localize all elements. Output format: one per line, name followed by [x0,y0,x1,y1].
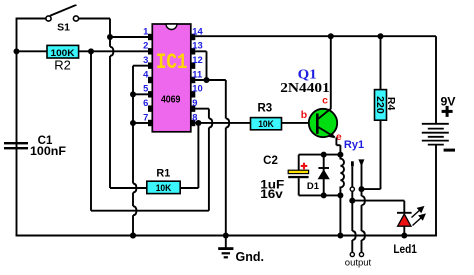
node coil bottom [337,192,343,198]
wire left rail to R2 [17,50,48,52]
wire pin13 down to pin11 [206,51,208,80]
wire R3 to base [282,122,311,124]
wire R4 bottom [362,120,381,189]
wire to pin 5 [133,93,148,95]
svg-text:Led1: Led1 [393,242,417,256]
svg-text:14: 14 [192,25,203,36]
wire to pin 3 [133,65,148,67]
wire pin9 riser [208,109,210,211]
wire pin 14 +V rail [195,35,436,37]
wire top-left rail segment [17,18,47,20]
svg-text:6: 6 [143,97,148,108]
wire pins 3-5-7 vertical [132,66,134,236]
node junction pin 11 [204,77,210,83]
svg-text:16v: 16v [260,187,283,201]
node junction pin 7 [130,120,136,126]
node junction left rail / R2 [14,48,20,54]
svg-text:9: 9 [192,97,197,108]
relay contact left [350,161,356,256]
svg-text:R3: R3 [257,103,272,115]
wire pins11-13 down to ground [225,80,227,236]
svg-text:output: output [345,258,372,269]
wire R1 left [110,187,147,189]
node D1 top [321,152,327,158]
svg-text:100K: 100K [51,47,75,58]
label battery minus [444,149,455,152]
svg-text:c: c [322,95,328,107]
node D1 bottom [321,192,327,198]
wire R4 top [380,36,382,89]
svg-text:12: 12 [192,54,202,65]
capacitor C2 [288,155,308,196]
label battery plus [442,106,453,117]
switch S1 [46,5,79,21]
svg-text:R1: R1 [156,167,170,179]
node contact right [359,186,365,192]
wire top-right corner [435,36,437,124]
wire collector [330,36,332,108]
svg-text:5: 5 [143,83,148,94]
wire pin 9 horizontal [195,108,209,110]
relay contact right [358,159,365,256]
wire pin 11 horizontal [195,79,226,81]
wire hop pin9-vert over R3 wire [209,118,212,127]
IC pin tabs [148,34,195,126]
svg-text:4069: 4069 [161,94,181,105]
svg-text:S1: S1 [57,22,70,34]
svg-text:10K: 10K [156,182,172,193]
wire horizontal to pin9 riser [91,210,209,212]
svg-text:D1: D1 [307,181,320,192]
svg-text:13: 13 [192,40,202,51]
node junction rail/ground [223,233,229,239]
wire bottom rail [16,235,437,237]
svg-text:2N4401: 2N4401 [280,80,330,95]
node junction R4 top [378,33,384,39]
node junction switch/pin1 [107,34,113,40]
svg-text:R4: R4 [385,97,397,111]
wire pin 13 horizontal [195,50,206,52]
IC pin numbers [143,25,203,122]
svg-text:2: 2 [143,40,148,51]
svg-text:11: 11 [192,68,202,79]
resistor R1 [147,181,180,193]
svg-text:Gnd.: Gnd. [236,250,264,264]
wire pin 8 to R3 [195,122,250,124]
svg-text:b: b [301,109,307,121]
node coil top [337,152,343,158]
svg-text:7: 7 [143,111,148,122]
svg-text:3: 3 [143,54,148,65]
wire R1 right [180,187,198,189]
label C2 plus [301,163,308,170]
ground symbol [218,236,233,259]
wire pin8 down to R1 [197,123,199,188]
wire vertical from switch down to R1 level [109,19,111,189]
diode D1 [318,155,330,196]
wire vertical R2-right down [90,51,92,210]
capacitor C1 [4,142,28,149]
svg-text:Ry1: Ry1 [344,139,364,151]
wire emitter segs [336,138,340,155]
wire to pin 1 [110,36,148,38]
transistor Q1 [309,108,337,138]
resistor R3 [251,118,282,130]
node junction R2 right [88,48,94,54]
node led feed [349,198,355,204]
svg-text:IC1: IC1 [156,49,188,75]
svg-text:4: 4 [143,68,149,79]
led Led1 [397,213,412,236]
wire relay bottom horizontal [299,194,341,196]
wire hop x133 over R1 wire [133,184,136,193]
svg-text:R2: R2 [54,58,71,73]
wire to pin 7 [133,122,148,124]
resistor R4 [374,90,387,121]
node junction pin 5 [130,91,136,97]
wire left rail [16,18,18,236]
node junction ground vertical on rail [130,233,136,239]
svg-text:10: 10 [192,83,202,94]
node junction pin 8 [195,120,201,126]
resistor R2 [47,45,79,58]
wire coil to rail [339,195,341,235]
svg-text:220: 220 [374,96,386,114]
battery B1 [422,124,449,145]
wire relay top horizontal [299,154,341,156]
node rail x133 [130,233,136,239]
wire hop x133 over lower horizontal [133,206,136,215]
node junction collector [328,33,334,39]
node coil rail [337,233,343,239]
node led rail [401,233,407,239]
relay coil Ry1 [340,155,344,196]
wire hop over pin2 wire [110,47,113,56]
wire led feed [352,201,404,213]
svg-text:1: 1 [143,25,148,36]
wire hop gnd-vert over R3 wire [226,118,229,127]
svg-text:10K: 10K [258,118,274,129]
svg-text:8: 8 [192,111,197,122]
svg-text:C2: C2 [263,155,278,167]
IC U1 body [152,24,191,132]
wire R2 to pin 2 [79,50,148,52]
wire switch to corner [79,18,110,20]
svg-text:100nF: 100nF [30,144,66,158]
led arrows [412,207,425,226]
wire battery to rail [435,145,437,236]
